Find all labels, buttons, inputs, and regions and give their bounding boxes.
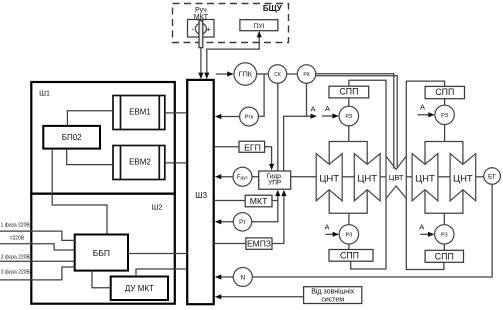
- wire Рт to Гидр.УПР: [252, 201, 278, 222]
- svg-text:СПП: СПП: [340, 251, 359, 261]
- svg-text:СПП: СПП: [339, 87, 358, 97]
- wire СПП to РЗ top-left: [348, 98, 350, 106]
- sensor Ртк: [240, 107, 259, 126]
- svg-text:СПП: СПП: [435, 251, 454, 261]
- svg-text:ЕВМ1: ЕВМ1: [129, 107, 151, 116]
- wire РЗ to СПП bottom-right: [443, 244, 445, 250]
- turbine ЦНТ 4: [450, 154, 476, 201]
- svg-text:СК: СК: [274, 72, 281, 78]
- wire Ртк to steam line junction: [258, 74, 264, 116]
- wire ЕМПЗ to Гидр.УПР: [272, 196, 284, 244]
- wire Рт to Ш3: [217, 221, 234, 223]
- svg-text:БЩУ: БЩУ: [263, 4, 283, 13]
- wire 1 фаза 220В: [0, 231, 75, 240]
- cabinet Ш2: [31, 194, 175, 304]
- valve РК: [297, 65, 315, 83]
- arrow МКТ-Рт into Гидр.УПР bottom: [275, 190, 280, 196]
- arrow A into РЗ bottom-right: [428, 232, 434, 237]
- manifold bottom-left: [329, 190, 367, 214]
- arrow Fдус into Ш3: [215, 174, 221, 179]
- arrow ПУІ link into Ш3: [204, 73, 209, 79]
- svg-text:Руч: Руч: [195, 7, 207, 14]
- wire Ш3 to ЕГП: [214, 146, 239, 148]
- arrow Від зовнішніх into Ш3: [215, 294, 221, 299]
- arrow lever into Ш3: [198, 73, 203, 79]
- svg-text:ЕГ: ЕГ: [488, 174, 497, 181]
- arrow into ПУІ: [257, 31, 262, 37]
- svg-text:РЗ: РЗ: [441, 113, 449, 119]
- generator ЕГ: [484, 168, 501, 185]
- svg-text:ЦНТ: ЦНТ: [415, 174, 435, 185]
- damper РЗ bottom-right: [435, 225, 454, 244]
- wire A to РЗ top-right: [417, 114, 432, 116]
- svg-text:Ртк: Ртк: [245, 115, 254, 121]
- valve СК: [268, 65, 286, 83]
- wire РЗ to СПП bottom-left: [348, 244, 350, 250]
- svg-text:А: А: [324, 223, 329, 232]
- svg-text:ЦНТ: ЦНТ: [453, 174, 473, 185]
- wire СПП to РЗ top-right: [444, 99, 446, 105]
- turbine ЦВТ: [386, 156, 406, 199]
- separator СПП top-right: [425, 86, 464, 98]
- svg-text:ПУІ: ПУІ: [253, 23, 264, 30]
- svg-text:МКТ: МКТ: [250, 196, 268, 206]
- wire Від зовнішніх to Ш3: [217, 296, 304, 298]
- wire СК-РК: [287, 73, 298, 75]
- power supply БП02: [43, 126, 100, 149]
- svg-text:ДУ МКТ: ДУ МКТ: [125, 284, 154, 293]
- box ПУІ: [240, 20, 278, 31]
- svg-text:РЗ: РЗ: [441, 233, 449, 239]
- wire ББП to ДУ МКТ: [92, 271, 111, 288]
- wire =220В: [0, 244, 75, 250]
- manifold top-right: [425, 142, 463, 165]
- dashed control-room box БЩУ: [173, 4, 289, 43]
- arrow ЕГП into Гидр.УПР: [269, 164, 274, 170]
- sensor Рт: [233, 213, 251, 231]
- computer ЕВМ1: [113, 96, 165, 130]
- svg-text:2 фаза 220В: 2 фаза 220В: [1, 255, 31, 261]
- svg-text:систем: систем: [321, 297, 344, 304]
- manifold bottom-right: [425, 190, 463, 214]
- svg-text:N: N: [240, 275, 245, 282]
- wire Fдус to Ш3: [217, 176, 234, 178]
- svg-text:БП02: БП02: [62, 133, 82, 142]
- wire node A to Гидр.УПР: [284, 116, 312, 171]
- wire N to Ш3: [217, 276, 234, 278]
- arrow N into Ш3: [215, 274, 221, 279]
- arrow A into РЗ top-right: [428, 112, 434, 117]
- wire A to РЗ bottom-left: [325, 233, 336, 235]
- bus Ш3: [187, 80, 214, 304]
- wire Ртк to Ш3: [217, 116, 240, 118]
- wire СПП top-right to ЦВТ: [406, 81, 444, 156]
- arrow into ГПК: [227, 71, 233, 76]
- wire РК down to node A: [306, 83, 308, 116]
- svg-text:ЕМПЗ: ЕМПЗ: [247, 239, 271, 249]
- wire shaft: [291, 176, 317, 178]
- wire 2 фаза 220В: [0, 260, 75, 262]
- cabinet Ш1: [31, 82, 175, 194]
- wire Fдус to Гидр.УПР: [252, 176, 259, 178]
- svg-text:ЦВТ: ЦВТ: [389, 173, 404, 182]
- remote control ДУ МКТ: [111, 277, 168, 301]
- wire РК steam to ЦВТ (double line): [316, 74, 394, 169]
- svg-text:=220В: =220В: [10, 235, 25, 241]
- svg-text:СПП: СПП: [435, 87, 454, 97]
- damper РЗ top-right: [435, 105, 454, 124]
- wire Ш3 to ЕМПЗ: [214, 243, 246, 245]
- wire lever to Ш3: [200, 48, 202, 74]
- arrow A into РЗ top-left: [332, 113, 338, 118]
- separator СПП bottom-left: [329, 250, 373, 262]
- svg-text:3 фаза 220В: 3 фаза 220В: [1, 270, 31, 276]
- box ЕГП: [239, 141, 265, 152]
- svg-text:1 фаза 220В: 1 фаза 220В: [1, 223, 31, 229]
- wire БП02 to ЕВМ1: [67, 111, 113, 126]
- svg-text:Ш3: Ш3: [195, 191, 207, 200]
- valve ГПК: [234, 63, 257, 86]
- separator СПП top-left: [329, 86, 369, 98]
- wire РЗ top-right to manifold: [444, 125, 446, 142]
- wire ГПК-СК: [257, 73, 269, 75]
- arrow Ртк into Ш3: [215, 114, 221, 119]
- manual control Руч МКТ: [188, 20, 215, 48]
- damper РЗ top-left: [339, 106, 359, 126]
- wire МКТ to Гидр.УПР: [272, 196, 278, 201]
- svg-text:МКТ: МКТ: [194, 14, 209, 21]
- hydraulic control Гидр.УПР: [259, 171, 291, 189]
- svg-text:ЦНТ: ЦНТ: [357, 174, 377, 185]
- speed sensor N: [233, 268, 252, 287]
- wire ПУІ link to Ш3: [207, 34, 259, 75]
- computer ЕВМ2: [113, 146, 165, 180]
- wire generator speed line: [252, 184, 492, 277]
- svg-text:РЗ: РЗ: [345, 114, 353, 120]
- svg-text:РК: РК: [303, 72, 309, 78]
- wire БП02 to ЕВМ2: [67, 149, 113, 165]
- wire ББП to Ш3: [128, 253, 187, 255]
- svg-text:+: +: [206, 24, 211, 33]
- svg-text:А: А: [325, 104, 330, 113]
- arrow A into РЗ bottom-left: [333, 232, 339, 237]
- box МКТ: [245, 195, 272, 207]
- battery unit ББП: [75, 235, 128, 271]
- wire A to РЗ top-left: [322, 115, 336, 117]
- turbine ЦНТ 2: [354, 154, 380, 201]
- svg-text:ГПК: ГПК: [239, 70, 253, 79]
- arrow ЕМПЗ into Гидр.УПР bottom: [281, 190, 286, 196]
- wire 3 фаза 220В: [0, 267, 75, 280]
- svg-text:ЦНТ: ЦНТ: [319, 174, 339, 185]
- wire СК down to Гидр.УПР: [277, 83, 279, 171]
- svg-text:ЕГП: ЕГП: [244, 142, 261, 152]
- svg-text:А: А: [310, 105, 315, 114]
- wire БП02 to ББП: [52, 149, 107, 235]
- damper РЗ bottom-left: [339, 225, 358, 244]
- wire СПП top-left to ЦВТ: [349, 80, 386, 156]
- wire ДУ МКТ to Ш3: [136, 269, 187, 277]
- separator СПП bottom-right: [425, 250, 463, 262]
- sensor Fдус: [233, 167, 252, 186]
- arrow Рт into Ш3: [215, 219, 221, 224]
- wire Ш3 to МКТ: [214, 200, 246, 202]
- wire ЕВМ2 to Ш3: [165, 162, 187, 164]
- svg-text:РЗ: РЗ: [345, 233, 353, 239]
- turbine ЦНТ 1: [316, 154, 342, 201]
- svg-text:А: А: [420, 103, 425, 112]
- svg-text:УПР: УПР: [268, 180, 281, 187]
- svg-text:ББП: ББП: [93, 248, 110, 258]
- svg-text:ЕВМ2: ЕВМ2: [129, 157, 151, 166]
- wire A to РЗ bottom-right: [420, 233, 432, 235]
- svg-text:Рт: Рт: [239, 220, 246, 226]
- svg-text:Ш2: Ш2: [151, 203, 162, 212]
- manifold top-left: [329, 142, 367, 165]
- wire СПП bottom-right to ЦВТ: [406, 199, 444, 270]
- turbine ЦНТ 3: [412, 154, 438, 201]
- box Від зовнішніх систем: [304, 287, 362, 304]
- box ЕМПЗ: [246, 238, 272, 249]
- wire СПП bottom-left to ЦВТ: [351, 199, 386, 270]
- svg-text:Ш1: Ш1: [39, 88, 50, 97]
- arrowheads: [198, 31, 434, 299]
- wire РЗ top-left to manifold: [348, 126, 350, 142]
- wire Ш3 to ГПК: [216, 73, 228, 75]
- wire ЕГП to Гидр.УПР: [265, 147, 272, 165]
- arrow node A flag: [311, 114, 317, 119]
- wire ЕВМ1 to Ш3: [165, 112, 187, 114]
- svg-text:А: А: [419, 223, 424, 232]
- svg-text:Від зовнішніх: Від зовнішніх: [311, 287, 354, 295]
